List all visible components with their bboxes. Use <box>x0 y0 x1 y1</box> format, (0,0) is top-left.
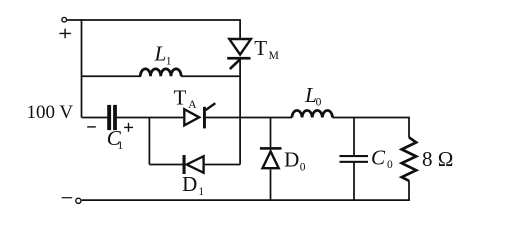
D0 branch vertical upper <box>270 118 272 148</box>
svg-text:T: T <box>174 85 187 109</box>
left rail <box>81 19 83 117</box>
D0 branch vertical lower <box>270 169 272 200</box>
svg-text:C: C <box>371 146 386 170</box>
thyristor TM triangle <box>229 39 251 55</box>
svg-text:A: A <box>188 99 197 111</box>
D0 triangle <box>263 151 279 168</box>
wire TM cathode down to D1 node <box>239 59 241 164</box>
thyristor TA triangle <box>184 109 199 125</box>
svg-text:0: 0 <box>387 159 393 171</box>
D1 wire left <box>149 164 183 166</box>
capacitor C1 right plate <box>113 105 117 130</box>
capacitor C1 left plate <box>107 105 111 130</box>
middle wire: C1 to TA <box>117 117 183 119</box>
C0 branch vertical lower <box>353 163 355 200</box>
svg-text:1: 1 <box>117 140 123 152</box>
positive terminal <box>62 17 67 22</box>
D0 cathode bar <box>260 147 282 150</box>
right rail lower <box>408 181 410 201</box>
svg-text:M: M <box>269 50 279 62</box>
L1 branch wire left <box>82 75 142 77</box>
bottom wire <box>82 199 410 201</box>
L1 branch wire right <box>181 75 240 77</box>
middle wire: TA to node <box>206 117 292 119</box>
TM gate <box>230 60 240 69</box>
D1 branch vertical <box>148 118 150 165</box>
negative terminal <box>76 198 81 203</box>
middle wire: rail to C1 <box>82 117 108 119</box>
svg-text:8 Ω: 8 Ω <box>422 147 453 171</box>
inductor L0 <box>292 110 333 117</box>
right rail upper <box>408 117 410 138</box>
middle wire: L0 to right rail <box>333 117 410 119</box>
svg-text:D: D <box>284 147 299 171</box>
svg-text:0: 0 <box>300 161 306 173</box>
C0 bottom plate <box>340 161 369 163</box>
C1 plus sign <box>124 123 133 132</box>
plus sign (supply +) <box>59 29 71 39</box>
svg-text:0: 0 <box>316 97 322 109</box>
D1 triangle <box>187 156 204 173</box>
TA gate <box>206 103 216 110</box>
svg-text:100 V: 100 V <box>27 102 74 123</box>
C0 top plate <box>340 155 369 157</box>
wire TM anode drop <box>239 19 241 38</box>
D1 wire right <box>205 164 240 166</box>
svg-text:D: D <box>182 172 197 196</box>
TA cathode bar <box>203 107 206 129</box>
minus sign (supply -) <box>62 197 73 199</box>
C0 branch vertical upper <box>353 118 355 156</box>
resistor 8 ohm zigzag <box>402 137 417 181</box>
svg-text:T: T <box>254 36 267 60</box>
top wire <box>67 19 240 21</box>
svg-text:1: 1 <box>166 56 172 68</box>
svg-text:L: L <box>154 42 167 66</box>
inductor L1 <box>140 69 181 76</box>
svg-text:1: 1 <box>198 186 204 198</box>
C1 minus sign <box>87 126 96 128</box>
TM cathode bar <box>227 57 250 60</box>
D1 cathode bar <box>183 155 186 174</box>
